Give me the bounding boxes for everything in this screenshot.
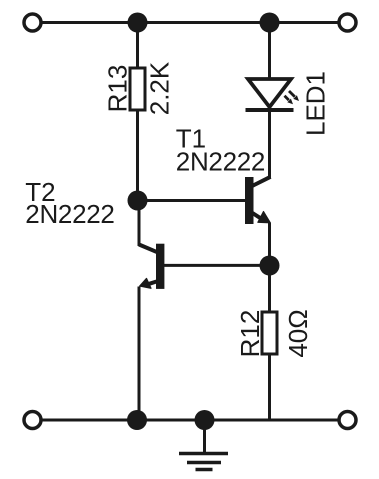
resistor R12 body (262, 312, 277, 354)
wire LED1 anode lead (268, 23, 271, 81)
transistor T1 emitter with arrow (253, 212, 271, 223)
wire R13 top lead (136, 23, 139, 69)
led LED1 cathode bar (246, 108, 294, 112)
svg-text:2N2222: 2N2222 (25, 199, 114, 229)
wire T2 emitter to bottom rail (138, 287, 141, 421)
transistor T2 emitter with arrow (140, 278, 157, 288)
wire T1 emitter to node D (268, 223, 271, 314)
wire top rail (33, 21, 348, 24)
node junction base dot (R13/T1 base/T2 collector) (128, 191, 148, 211)
transistor T1 base bar (245, 177, 254, 224)
wire T2 collector lead (138, 201, 141, 247)
node junction ground dot (195, 410, 215, 430)
terminal bottom-right (339, 412, 356, 429)
led LED1 emission arrow upper (289, 91, 299, 101)
terminal top-right (339, 14, 356, 31)
resistor R13 body (130, 68, 145, 110)
node junction top-left dot (128, 13, 148, 33)
node junction bottom-left dot (127, 410, 147, 430)
svg-text:R13: R13 (103, 65, 133, 113)
wire LED1 cathode to T1 collector (268, 108, 271, 178)
wire T2 base to node D (163, 264, 270, 267)
transistor T2 base bar (156, 244, 164, 289)
svg-text:R12: R12 (235, 310, 265, 358)
svg-text:2N2222: 2N2222 (176, 147, 265, 177)
wire T1 base (138, 199, 246, 202)
node junction emitter dot (T1 emitter/T2 base/R12) (260, 256, 280, 276)
ground symbol (179, 420, 228, 470)
terminal top-left (24, 14, 41, 31)
svg-text:LED1: LED1 (301, 71, 331, 136)
node junction top-right dot (260, 13, 280, 33)
svg-text:40Ω: 40Ω (283, 309, 313, 357)
led LED1 emission arrow lower (285, 96, 294, 105)
wire bottom rail (33, 419, 348, 422)
svg-text:2.2K: 2.2K (145, 61, 175, 115)
led LED1 triangle (248, 79, 291, 107)
transistor T1 collector diagonal (253, 177, 271, 186)
terminal bottom-left (24, 412, 41, 429)
transistor T2 collector diagonal (139, 245, 158, 253)
wire R13 bottom lead (136, 110, 139, 201)
wire R12 bottom lead (268, 353, 271, 420)
